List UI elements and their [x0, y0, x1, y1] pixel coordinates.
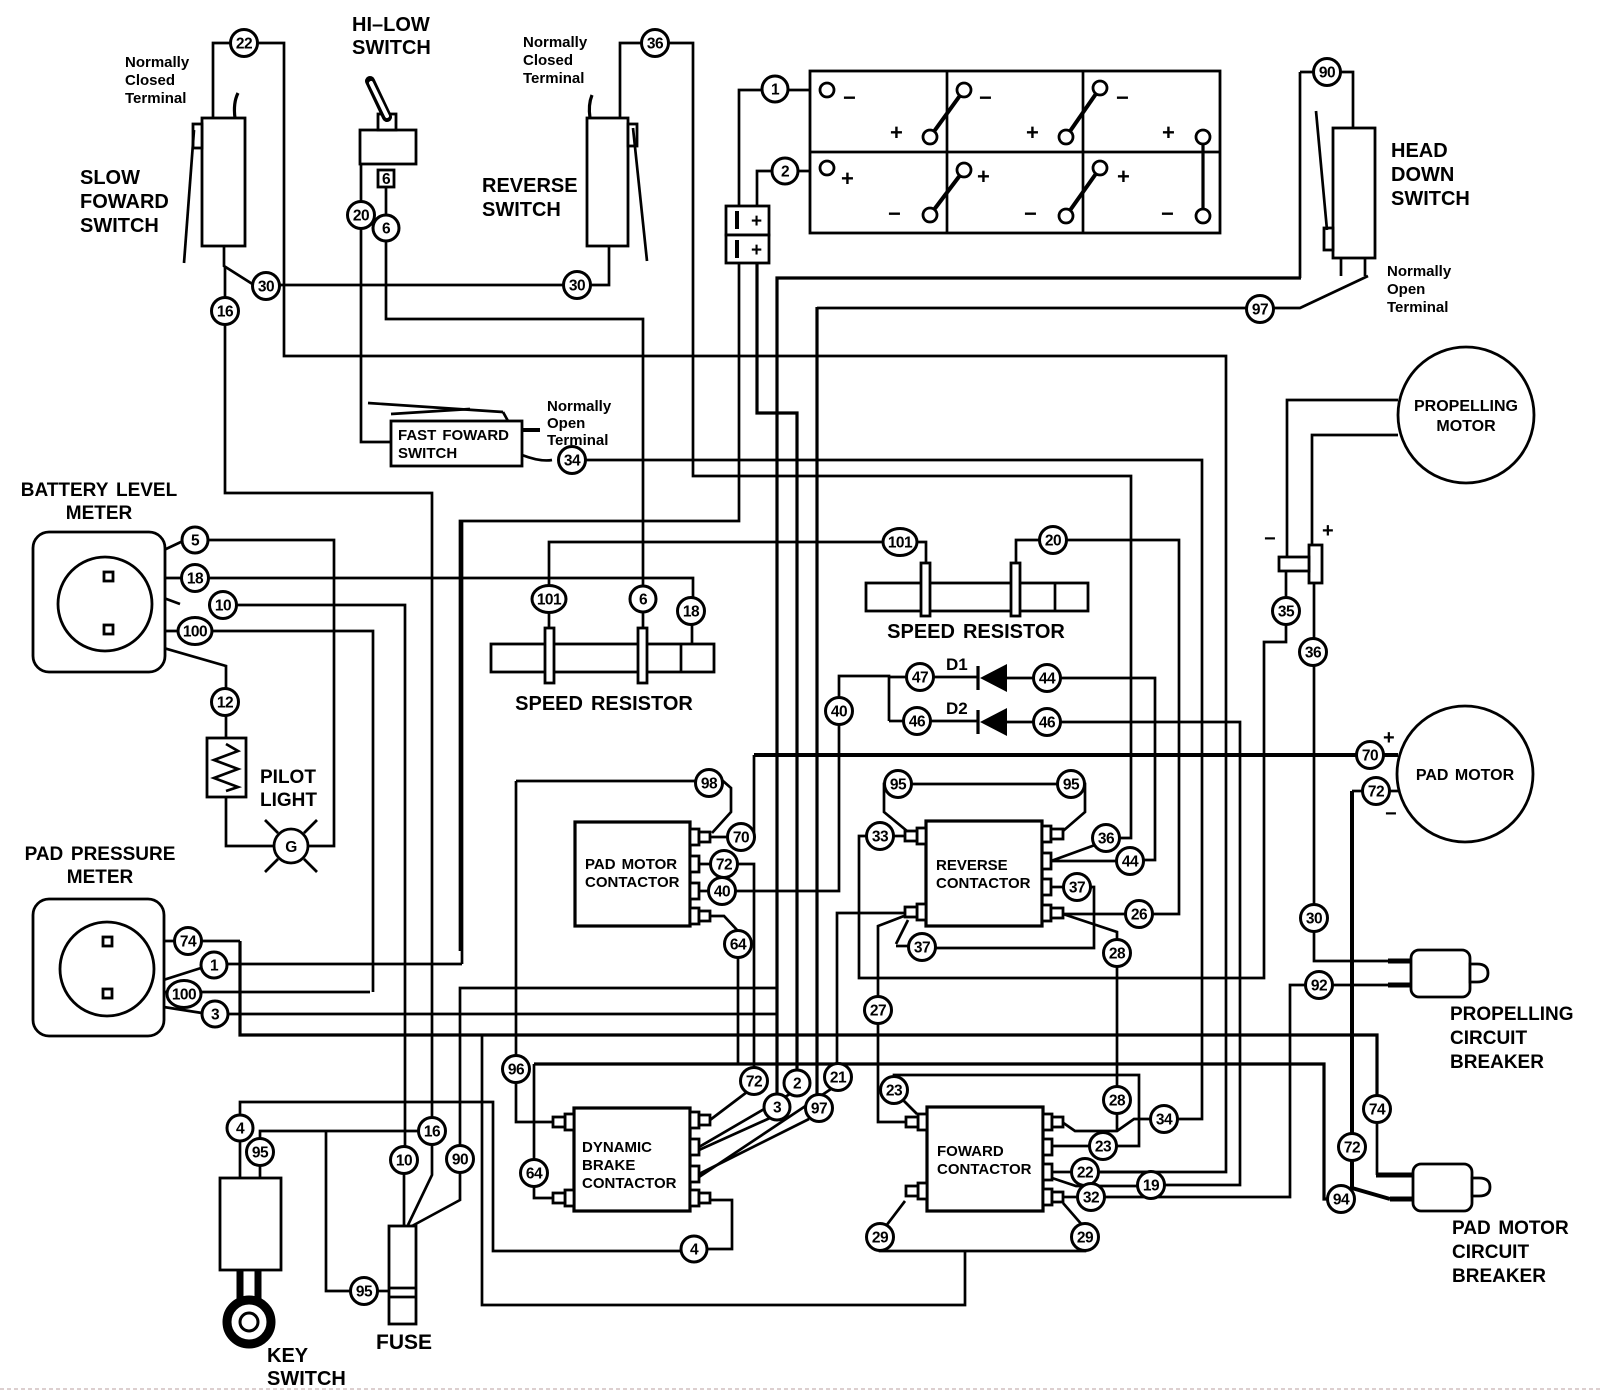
node 3 — [764, 1094, 790, 1120]
fast forward switch — [368, 403, 540, 466]
node 26 — [1126, 901, 1153, 928]
key switch — [220, 1178, 281, 1344]
svg-text:36: 36 — [1098, 831, 1115, 848]
svg-text:1: 1 — [210, 958, 219, 975]
svg-text:100: 100 — [183, 624, 207, 641]
bottom page border line — [0, 1388, 1600, 1390]
node 1 — [762, 76, 788, 102]
svg-text:92: 92 — [1311, 978, 1327, 995]
node 90 — [447, 1146, 474, 1173]
svg-text:BREAKER: BREAKER — [1452, 1266, 1546, 1287]
label normally open terminal fast forward — [547, 398, 612, 449]
svg-text:REVERSE: REVERSE — [482, 175, 578, 197]
wire net 72b: pad motor minus to pad breaker — [1352, 791, 1413, 1199]
svg-text:70: 70 — [1362, 748, 1378, 765]
svg-text:4: 4 — [690, 1242, 699, 1259]
node 27 — [865, 997, 892, 1024]
node 74 — [175, 928, 202, 955]
svg-text:5: 5 — [191, 533, 200, 550]
svg-text:METER: METER — [66, 503, 133, 524]
svg-text:CONTACTOR: CONTACTOR — [937, 1161, 1032, 1178]
svg-text:METER: METER — [67, 867, 134, 888]
node 6 — [630, 586, 656, 612]
svg-text:70: 70 — [733, 830, 749, 847]
node 72 — [711, 851, 738, 878]
svg-text:Closed: Closed — [523, 52, 573, 69]
node 2 — [772, 158, 798, 184]
svg-text:CONTACTOR: CONTACTOR — [936, 875, 1031, 892]
node 96 — [503, 1056, 530, 1083]
svg-text:46: 46 — [909, 714, 926, 731]
node 28 — [1104, 940, 1131, 967]
svg-text:97: 97 — [1252, 302, 1268, 319]
svg-text:18: 18 — [683, 604, 700, 621]
svg-text:+: + — [1026, 120, 1039, 145]
svg-text:Closed: Closed — [125, 72, 175, 89]
svg-text:36: 36 — [647, 36, 664, 53]
label normally closed terminal left — [125, 54, 190, 107]
svg-text:PROPELLING: PROPELLING — [1450, 1004, 1574, 1025]
svg-text:CIRCUIT: CIRCUIT — [1452, 1242, 1529, 1263]
battery connector block — [726, 206, 769, 263]
node 23 — [1090, 1133, 1117, 1160]
node 18 — [182, 565, 209, 592]
svg-text:40: 40 — [714, 884, 730, 901]
svg-text:35: 35 — [1278, 604, 1295, 621]
svg-text:44: 44 — [1039, 671, 1056, 688]
svg-text:37: 37 — [914, 940, 930, 957]
svg-text:29: 29 — [1077, 1230, 1094, 1247]
svg-text:98: 98 — [701, 776, 718, 793]
svg-text:DYNAMIC: DYNAMIC — [582, 1139, 652, 1156]
svg-text:+: + — [1162, 120, 1175, 145]
svg-text:PAD MOTOR: PAD MOTOR — [1416, 767, 1515, 784]
node 35 — [1273, 598, 1300, 625]
wire net 20: hi-low switch to fast forward switch — [361, 164, 391, 442]
label battery level meter — [21, 480, 178, 524]
svg-text:−: − — [888, 201, 901, 226]
svg-text:95: 95 — [356, 1284, 373, 1301]
svg-text:19: 19 — [1143, 1178, 1160, 1195]
wire net 74: pad pressure meter to propelling breaker top — [117, 941, 1413, 1175]
svg-text:72: 72 — [1368, 784, 1384, 801]
right speed resistor — [866, 563, 1088, 616]
svg-text:4: 4 — [236, 1121, 245, 1138]
svg-text:34: 34 — [564, 453, 581, 470]
svg-text:95: 95 — [1063, 777, 1080, 794]
svg-text:SLOW: SLOW — [80, 167, 140, 189]
node 36 — [1300, 639, 1327, 666]
wire net 1: pad pressure meter to battery meter feed — [113, 521, 462, 996]
svg-text:95: 95 — [890, 777, 907, 794]
label normally open terminal right — [1387, 263, 1452, 316]
wire net 34: fast forward switch to forward contactor — [522, 455, 1202, 1131]
fuse — [389, 1226, 416, 1324]
svg-text:16: 16 — [424, 1124, 441, 1141]
svg-text:Open: Open — [547, 415, 585, 432]
svg-text:64: 64 — [526, 1166, 543, 1183]
svg-text:PILOT: PILOT — [260, 767, 316, 788]
svg-text:SWITCH: SWITCH — [267, 1368, 346, 1390]
svg-text:SWITCH: SWITCH — [352, 37, 431, 59]
svg-text:+: + — [1383, 727, 1395, 749]
svg-text:10: 10 — [396, 1153, 412, 1170]
svg-text:KEY: KEY — [267, 1345, 309, 1367]
node 44 — [1034, 665, 1061, 692]
svg-text:16: 16 — [217, 304, 234, 321]
node 40 — [826, 698, 853, 725]
wire net 90b: connector left pin down to fuse 90 branch — [460, 263, 739, 951]
wire net 40: diode common to pad motor contactor — [698, 676, 889, 891]
svg-text:+: + — [751, 240, 762, 261]
svg-text:REVERSE: REVERSE — [936, 857, 1008, 874]
svg-text:LIGHT: LIGHT — [260, 790, 317, 811]
svg-text:−: − — [1116, 85, 1129, 110]
svg-text:FOWARD: FOWARD — [937, 1143, 1004, 1160]
reverse switch — [587, 95, 647, 261]
svg-text:CONTACTOR: CONTACTOR — [585, 874, 680, 891]
wire net 92-32: forward contactor pin4 to propelling breaker — [1063, 985, 1413, 1197]
wire net 101: left speed resistor blade1 to right speed resistor blade1 — [549, 542, 926, 628]
pad motor — [1397, 706, 1533, 842]
svg-text:20: 20 — [353, 208, 369, 225]
wire net 16: slow forward switch to fuse area — [225, 267, 432, 1225]
svg-text:HI–LOW: HI–LOW — [352, 14, 430, 36]
node 74 — [1364, 1096, 1391, 1123]
label reverse switch — [482, 175, 578, 221]
svg-text:2: 2 — [793, 1076, 801, 1093]
node 10 — [210, 592, 237, 619]
dynamic brake contactor — [553, 1108, 710, 1211]
node 95 — [1058, 771, 1085, 798]
node 22 — [1072, 1159, 1099, 1186]
svg-text:−: − — [1024, 201, 1037, 226]
wire net 26-28: reverse contactor pin4 — [1063, 914, 1117, 1131]
svg-text:+: + — [890, 120, 903, 145]
svg-text:HEAD: HEAD — [1391, 140, 1448, 162]
node 90 — [1314, 59, 1341, 86]
svg-text:97: 97 — [811, 1101, 827, 1118]
node 18 — [678, 598, 705, 625]
svg-text:34: 34 — [1156, 1112, 1173, 1129]
wire net 95 loop: reverse contactor coil — [884, 784, 1085, 831]
wire net 22: slow forward switch top to forward contactor via right bus — [213, 43, 1226, 1172]
propelling motor — [1398, 347, 1534, 483]
svg-text:CIRCUIT: CIRCUIT — [1450, 1028, 1527, 1049]
svg-text:72: 72 — [746, 1074, 762, 1091]
pad motor contactor — [575, 822, 710, 926]
node 20 — [348, 202, 375, 229]
svg-text:27: 27 — [870, 1003, 886, 1020]
svg-text:94: 94 — [1333, 1192, 1350, 1209]
svg-text:Normally: Normally — [125, 54, 190, 71]
svg-text:Terminal: Terminal — [523, 70, 584, 87]
node 28 — [1104, 1087, 1131, 1114]
wire net 29 loop: forward contactor bottom coil — [880, 1201, 1085, 1251]
node 10 — [391, 1147, 418, 1174]
hi-low switch — [360, 81, 416, 188]
node 72 — [741, 1068, 768, 1095]
node 70 — [728, 824, 755, 851]
wire net 21: reverse contactor lower pin to dynamic brake — [699, 913, 904, 1177]
node 37 — [909, 934, 936, 961]
label propelling circuit breaker — [1450, 1004, 1574, 1073]
svg-text:3: 3 — [211, 1007, 220, 1024]
svg-text:72: 72 — [716, 857, 732, 874]
svg-text:23: 23 — [1095, 1139, 1112, 1156]
svg-text:FOWARD: FOWARD — [80, 191, 169, 213]
label head down switch — [1391, 140, 1470, 210]
svg-text:36: 36 — [1305, 645, 1322, 662]
svg-text:47: 47 — [912, 670, 928, 687]
svg-text:+: + — [1322, 520, 1334, 542]
pilot light lamp G — [265, 820, 317, 872]
svg-text:BRAKE: BRAKE — [582, 1157, 635, 1174]
wire net 27: reverse contactor to forward contactor — [878, 916, 905, 1122]
node 16 — [212, 298, 239, 325]
wire net 100a: battery level meter lower terminal — [115, 631, 373, 992]
svg-text:MOTOR: MOTOR — [1436, 418, 1496, 435]
svg-text:BATTERY LEVEL: BATTERY LEVEL — [21, 480, 178, 501]
node 29 — [867, 1224, 894, 1251]
pad motor circuit breaker — [1413, 1164, 1490, 1211]
svg-text:G: G — [285, 839, 297, 856]
node 3 — [202, 1001, 228, 1027]
reverse contactor — [905, 821, 1063, 926]
node 36 — [1093, 825, 1120, 852]
label key switch — [267, 1345, 346, 1390]
svg-text:28: 28 — [1109, 1093, 1126, 1110]
svg-text:20: 20 — [1045, 533, 1061, 550]
label pad motor circuit breaker — [1452, 1218, 1569, 1287]
svg-text:10: 10 — [215, 598, 231, 615]
svg-text:FUSE: FUSE — [376, 1331, 432, 1354]
svg-text:23: 23 — [886, 1083, 903, 1100]
svg-text:Open: Open — [1387, 281, 1425, 298]
svg-text:−: − — [843, 85, 856, 110]
svg-text:−: − — [1385, 803, 1397, 825]
node 33 — [867, 823, 894, 850]
wire net 33-35: reverse contactor to propelling motor minus — [859, 571, 1286, 978]
svg-text:DOWN: DOWN — [1391, 164, 1454, 186]
wire net 46 D2: diode D2 to forward contactor loop — [889, 721, 1240, 1186]
svg-text:22: 22 — [236, 36, 252, 53]
svg-text:−: − — [1264, 528, 1276, 550]
label D2 — [946, 699, 968, 718]
node 29 — [1072, 1224, 1099, 1251]
node 32 — [1078, 1184, 1105, 1211]
node 46 — [904, 708, 931, 735]
svg-text:SWITCH: SWITCH — [1391, 188, 1470, 210]
svg-text:CONTACTOR: CONTACTOR — [582, 1175, 677, 1192]
propelling circuit breaker — [1411, 950, 1488, 997]
node 47 — [907, 664, 934, 691]
label speed resistor left — [515, 693, 693, 715]
node 37 — [1064, 874, 1091, 901]
svg-text:PAD MOTOR: PAD MOTOR — [1452, 1218, 1569, 1239]
node 101 — [532, 586, 566, 613]
node 101 — [883, 529, 917, 556]
node 16 — [419, 1118, 446, 1145]
svg-text:−: − — [979, 85, 992, 110]
svg-text:33: 33 — [872, 829, 889, 846]
node 64 — [725, 931, 752, 958]
label hi-low switch — [352, 14, 431, 59]
node 36 — [642, 30, 669, 57]
svg-text:32: 32 — [1083, 1190, 1099, 1207]
wire net 5: battery level meter to pilot light loop — [115, 540, 334, 846]
node 5 — [182, 527, 208, 553]
label fuse — [376, 1331, 432, 1354]
node 4 — [681, 1236, 707, 1262]
wire net 44 D1: diode D1 to reverse contactor — [889, 677, 1155, 861]
svg-text:Terminal: Terminal — [125, 90, 186, 107]
svg-text:6: 6 — [382, 221, 391, 238]
diode D2 — [978, 708, 1007, 736]
svg-text:28: 28 — [1109, 946, 1126, 963]
node 22 — [231, 30, 258, 57]
svg-text:6: 6 — [639, 592, 648, 609]
node 95 — [351, 1278, 378, 1305]
svg-text:D1: D1 — [946, 655, 968, 674]
label speed resistor right — [887, 621, 1065, 643]
svg-text:+: + — [1117, 164, 1130, 189]
svg-text:64: 64 — [730, 937, 747, 954]
svg-text:12: 12 — [217, 695, 233, 712]
pad motor polarity — [1383, 727, 1397, 825]
label pilot light — [260, 767, 317, 811]
label D1 — [946, 655, 968, 674]
svg-text:37: 37 — [1069, 880, 1085, 897]
wire net 3: pad pressure meter to dynamic brake — [113, 999, 777, 1150]
svg-text:6: 6 — [382, 171, 391, 188]
svg-text:3: 3 — [773, 1100, 782, 1117]
svg-text:2: 2 — [781, 164, 789, 181]
battery level meter — [33, 532, 165, 672]
head down switch — [1316, 111, 1375, 276]
node 95 — [247, 1139, 274, 1166]
svg-text:30: 30 — [258, 279, 274, 296]
svg-text:PROPELLING: PROPELLING — [1414, 398, 1518, 415]
svg-text:BREAKER: BREAKER — [1450, 1052, 1544, 1073]
wire net 97: head down switch NO terminal to dynamic brake contactor — [699, 276, 1368, 1174]
node 34 — [1151, 1106, 1178, 1133]
svg-text:PAD PRESSURE: PAD PRESSURE — [25, 844, 176, 865]
svg-text:PAD MOTOR: PAD MOTOR — [585, 856, 677, 873]
node 97 — [806, 1095, 833, 1122]
node 23 — [881, 1077, 908, 1104]
node 92 — [1306, 972, 1333, 999]
svg-text:101: 101 — [537, 592, 562, 609]
diode D1 — [978, 664, 1007, 692]
svg-text:+: + — [977, 164, 990, 189]
svg-text:+: + — [751, 211, 762, 232]
wire net 95: key switch to fuse — [260, 1131, 432, 1291]
svg-text:−: − — [1161, 201, 1174, 226]
node 64 — [521, 1160, 548, 1187]
node 4 — [227, 1115, 253, 1141]
svg-text:101: 101 — [888, 535, 913, 552]
svg-text:30: 30 — [1306, 911, 1322, 928]
wire net 22b-19: forward contactor pin3 — [1052, 1171, 1151, 1174]
node 40 — [709, 878, 736, 905]
node 95 — [885, 771, 912, 798]
wire net 20b: right speed resistor blade2 to reverse contactor — [1016, 540, 1179, 914]
wire net 35-36 motor leads: propelling motor to plug — [1287, 400, 1413, 961]
pilot light resistor — [207, 738, 246, 797]
svg-text:SWITCH: SWITCH — [398, 445, 457, 462]
pad pressure meter — [33, 899, 164, 1036]
node 30 — [1301, 905, 1328, 932]
svg-text:30: 30 — [569, 278, 585, 295]
svg-text:SPEED RESISTOR: SPEED RESISTOR — [887, 621, 1065, 643]
node 30 — [253, 273, 280, 300]
svg-text:74: 74 — [1369, 1102, 1386, 1119]
node 44 — [1117, 848, 1144, 875]
left speed resistor — [491, 628, 714, 683]
battery pack — [810, 71, 1220, 233]
svg-text:Terminal: Terminal — [1387, 299, 1448, 316]
node 19 — [1138, 1172, 1165, 1199]
svg-text:46: 46 — [1039, 715, 1056, 732]
svg-text:96: 96 — [508, 1062, 525, 1079]
wire net 90: head down switch to battery bus and fuse — [412, 72, 1353, 1226]
svg-text:SPEED RESISTOR: SPEED RESISTOR — [515, 693, 693, 715]
svg-text:40: 40 — [831, 704, 847, 721]
svg-text:Normally: Normally — [1387, 263, 1452, 280]
svg-text:22: 22 — [1077, 1165, 1093, 1182]
svg-text:29: 29 — [872, 1230, 889, 1247]
svg-text:95: 95 — [252, 1145, 269, 1162]
svg-text:FAST FOWARD: FAST FOWARD — [398, 427, 509, 444]
node 98 — [696, 770, 723, 797]
wire net 10: battery level meter to fuse — [115, 580, 405, 1226]
node 2 — [784, 1070, 810, 1096]
wire net 29 tap: forward contactor coil return — [482, 1035, 965, 1305]
wire net 72: pad contactor pin2 to dynamic brake pin1 — [698, 864, 754, 1120]
wire net 36: reverse switch top to reverse contactor pin — [620, 43, 1131, 861]
wire net 98: pad motor contactor feed — [516, 781, 731, 1122]
svg-text:SWITCH: SWITCH — [80, 215, 159, 237]
node 1 — [201, 952, 227, 978]
svg-text:72: 72 — [1344, 1140, 1360, 1157]
node 100 — [167, 981, 201, 1008]
node 6 — [373, 215, 399, 241]
node 20 — [1040, 527, 1067, 554]
svg-text:90: 90 — [452, 1152, 468, 1169]
svg-text:Normally: Normally — [547, 398, 612, 415]
wire net 70: pad motor contactor pin1 to pad motor plus — [710, 755, 1398, 837]
wire net 4: key switch to dynamic brake pin4 — [240, 1102, 732, 1251]
node 100 — [178, 618, 212, 645]
node 94 — [1328, 1186, 1355, 1213]
node 97 — [1247, 296, 1274, 323]
wire net 18: battery level meter to left speed resistor — [117, 578, 693, 644]
svg-text:90: 90 — [1319, 65, 1335, 82]
wire net 23: forward contactor coil loop — [894, 1075, 1139, 1146]
node 72 — [1363, 778, 1390, 805]
wire net 12: battery meter to pilot resistor — [115, 634, 226, 738]
svg-text:+: + — [841, 166, 854, 191]
svg-text:21: 21 — [830, 1070, 847, 1087]
node 72 — [1339, 1134, 1366, 1161]
node 70 — [1357, 742, 1384, 769]
label normally closed terminal mid — [523, 34, 588, 87]
node 34 — [559, 447, 586, 474]
svg-text:100: 100 — [172, 987, 196, 1004]
label slow foward switch — [80, 167, 169, 237]
motor plug connector — [1264, 520, 1334, 583]
